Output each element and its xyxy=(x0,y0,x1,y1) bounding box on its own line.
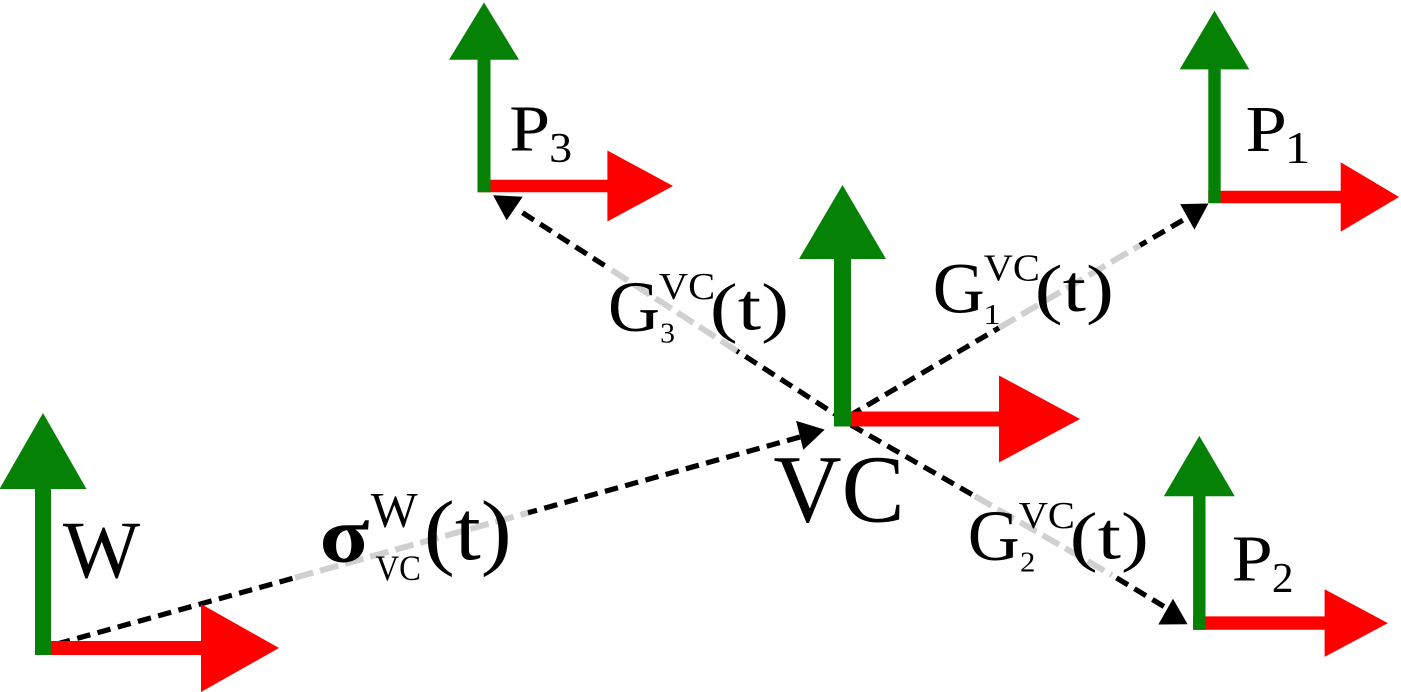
frame P3 red x-axis arrow xyxy=(478,151,674,222)
svg-text:VC: VC xyxy=(1019,495,1075,537)
arrowhead of G3 VC to P3 xyxy=(493,195,523,220)
frame P2 red x-axis arrow xyxy=(1193,589,1388,657)
svg-text:(t): (t) xyxy=(710,270,789,344)
wire dashed transform line sigma W to VC: black segment near arrow end xyxy=(528,437,800,513)
svg-text:W: W xyxy=(63,504,141,595)
svg-text:G: G xyxy=(933,249,985,329)
wire dashed transform line sigma W to VC: gray segment behind label xyxy=(295,513,528,578)
svg-text:(t): (t) xyxy=(424,485,512,578)
svg-text:VC: VC xyxy=(659,266,715,308)
svg-text:1: 1 xyxy=(983,299,1000,330)
svg-text:VC: VC xyxy=(773,436,904,543)
frame P3 green y-axis arrow xyxy=(449,3,519,193)
frame P1 green y-axis arrow xyxy=(1180,11,1250,203)
wire dashed transform line G2 VC to P2: black segment near arrow end xyxy=(1112,575,1164,606)
frame P1 red x-axis arrow xyxy=(1208,162,1399,231)
wire dashed transform line G2 VC to P2: gray segment behind label xyxy=(975,496,1112,575)
arrowhead of sigma W to VC xyxy=(796,421,825,450)
svg-text:3: 3 xyxy=(549,125,572,172)
wire dashed transform line G1 VC to P1: black segment near arrow end xyxy=(1140,220,1183,245)
svg-text:(t): (t) xyxy=(1070,499,1149,573)
wire dashed transform line sigma W to VC: black segment near start xyxy=(57,578,295,644)
wire dashed transform line G1 VC to P1: gray segment behind label xyxy=(999,245,1140,328)
wire dashed transform line G3 VC to P3: black segment near arrow end xyxy=(523,213,611,269)
frame P2 green y-axis arrow xyxy=(1164,436,1235,630)
svg-text:P: P xyxy=(1246,93,1287,166)
frame W red x-axis arrow xyxy=(35,604,279,692)
svg-text:σ: σ xyxy=(320,491,370,579)
svg-text:VC: VC xyxy=(984,248,1040,290)
svg-text:2: 2 xyxy=(1020,548,1035,579)
wire dashed transform line G3 VC to P3: black segment near start xyxy=(737,351,845,421)
wire dashed transform line G1 VC to P1: black segment near start xyxy=(849,328,999,416)
svg-text:P: P xyxy=(1232,523,1273,595)
svg-text:VC: VC xyxy=(376,549,421,589)
wire dashed transform line G2 VC to P2: black segment near start xyxy=(851,425,975,496)
svg-text:G: G xyxy=(968,496,1020,576)
svg-text:P: P xyxy=(509,93,550,165)
arrowhead of G2 VC to P2 xyxy=(1158,599,1187,625)
svg-text:(t): (t) xyxy=(1035,252,1114,326)
arrowhead of G1 VC to P1 xyxy=(1180,204,1208,230)
frame VC red x-axis arrow xyxy=(834,376,1080,463)
svg-text:G: G xyxy=(608,267,660,347)
svg-text:1: 1 xyxy=(1285,124,1311,174)
wire dashed transform line G3 VC to P3: gray segment behind label xyxy=(610,269,737,351)
svg-text:2: 2 xyxy=(1272,556,1294,602)
frame W green y-axis arrow xyxy=(0,413,87,655)
svg-text:3: 3 xyxy=(660,318,675,349)
svg-text:W: W xyxy=(371,482,418,537)
frame VC green y-axis arrow xyxy=(799,185,886,427)
